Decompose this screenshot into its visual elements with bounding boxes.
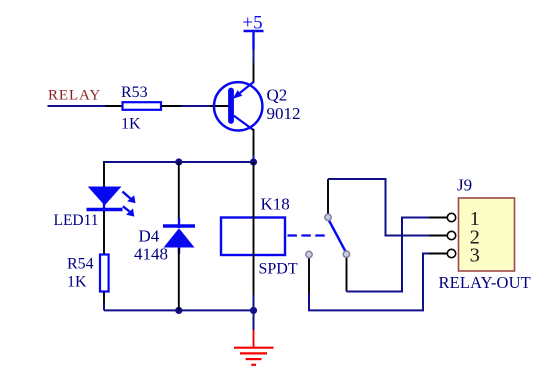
switch contact top	[325, 214, 331, 220]
switch arm	[329, 220, 346, 253]
wire node to LED	[103, 161, 105, 187]
LED LED11 triangle	[88, 187, 122, 206]
wire pole to J9 pin3	[309, 254, 429, 311]
svg-text:Q2: Q2	[267, 86, 288, 105]
wire node to D4 cathode	[178, 162, 180, 219]
resistor R54 body	[100, 255, 109, 292]
svg-text:1K: 1K	[121, 116, 141, 133]
junction dot bottom right	[250, 307, 257, 314]
power stub	[252, 31, 254, 50]
R53 right pin	[161, 105, 181, 107]
node bottom wire	[104, 309, 254, 311]
wire power to Q2 emitter	[253, 50, 255, 64]
resistor R53 body	[123, 102, 162, 110]
wire through relay coil	[253, 162, 255, 295]
LED arrow 1 shaft	[122, 192, 131, 200]
svg-text:LED11: LED11	[54, 212, 99, 229]
wire D4 to bottom node	[178, 248, 180, 310]
wire top throw to J9 pin2	[328, 179, 429, 236]
R54 bottom pin	[103, 292, 105, 304]
wire R54 to bottom node	[103, 303, 105, 310]
J9 pin1 lead	[429, 217, 448, 219]
Q2 collector pin	[253, 129, 255, 155]
transistor Q2 circle	[214, 82, 262, 130]
J9 pin circle 1	[447, 213, 455, 221]
ground bar 2	[240, 352, 267, 354]
ground bar 1	[234, 347, 274, 349]
LED arrow 1 head	[127, 195, 135, 203]
wire collector to node	[253, 155, 255, 162]
svg-text:9012: 9012	[267, 104, 301, 123]
junction dot bottom left	[175, 307, 182, 314]
wire R53 to Q2 base	[181, 105, 210, 107]
J9 pin circle 3	[447, 249, 455, 257]
switch middle throw pin	[346, 257, 348, 292]
LED arrow 2 shaft	[123, 206, 130, 211]
wire LED to R54	[103, 211, 105, 255]
power bar	[244, 30, 264, 32]
LED LED11 anode stub	[103, 186, 105, 212]
Q2 emitter line	[240, 82, 254, 93]
J9 pin circle 2	[447, 231, 455, 239]
ground stub	[253, 330, 255, 348]
wire middle throw to J9 pin1	[347, 218, 430, 292]
ground bar 3	[246, 358, 262, 360]
wire RELAY to R53	[48, 105, 106, 107]
diode D4 anode stub	[178, 248, 180, 255]
R53 left pin	[106, 105, 123, 107]
LED cathode bar	[87, 208, 123, 212]
switch contact pole	[306, 251, 312, 257]
svg-text:J9: J9	[457, 176, 472, 195]
switch pole pin	[308, 257, 310, 293]
J9 pin3 lead	[429, 253, 448, 255]
svg-text:K18: K18	[261, 195, 290, 214]
svg-text:4148: 4148	[134, 245, 168, 264]
svg-text:R53: R53	[121, 84, 148, 101]
ground bar 4	[251, 364, 256, 366]
Q2 base pin	[210, 105, 229, 107]
svg-text:3: 3	[470, 245, 480, 267]
diode D4 cathode stub	[178, 218, 180, 228]
Q2 emitter pin	[253, 63, 255, 83]
junction dot top left	[175, 158, 182, 165]
svg-text:SPDT: SPDT	[259, 261, 298, 278]
switch top throw pin	[327, 179, 329, 215]
wire coil to bottom node	[253, 295, 255, 310]
diode D4 cathode bar	[163, 224, 195, 227]
Q2 base bar	[228, 91, 234, 122]
node top wire	[104, 161, 254, 163]
LED arrow 2 head	[126, 209, 134, 217]
connector J9 box	[459, 198, 515, 271]
diode D4 triangle	[164, 228, 195, 247]
svg-text:1K: 1K	[67, 274, 87, 291]
svg-text:R54: R54	[67, 256, 94, 273]
dashed linkage K18 to switch	[288, 234, 326, 236]
svg-text:RELAY-OUT: RELAY-OUT	[439, 273, 531, 292]
junction dot top right	[250, 158, 257, 165]
svg-text:RELAY: RELAY	[48, 88, 101, 104]
svg-text:D4: D4	[139, 227, 160, 246]
J9 pin2 lead	[429, 235, 448, 237]
switch contact middle	[343, 251, 349, 257]
relay K18 coil box	[221, 218, 285, 256]
Q2 emitter arrowhead	[233, 90, 243, 99]
wire bottom node to ground	[253, 310, 255, 330]
Q2 collector line	[234, 116, 254, 131]
